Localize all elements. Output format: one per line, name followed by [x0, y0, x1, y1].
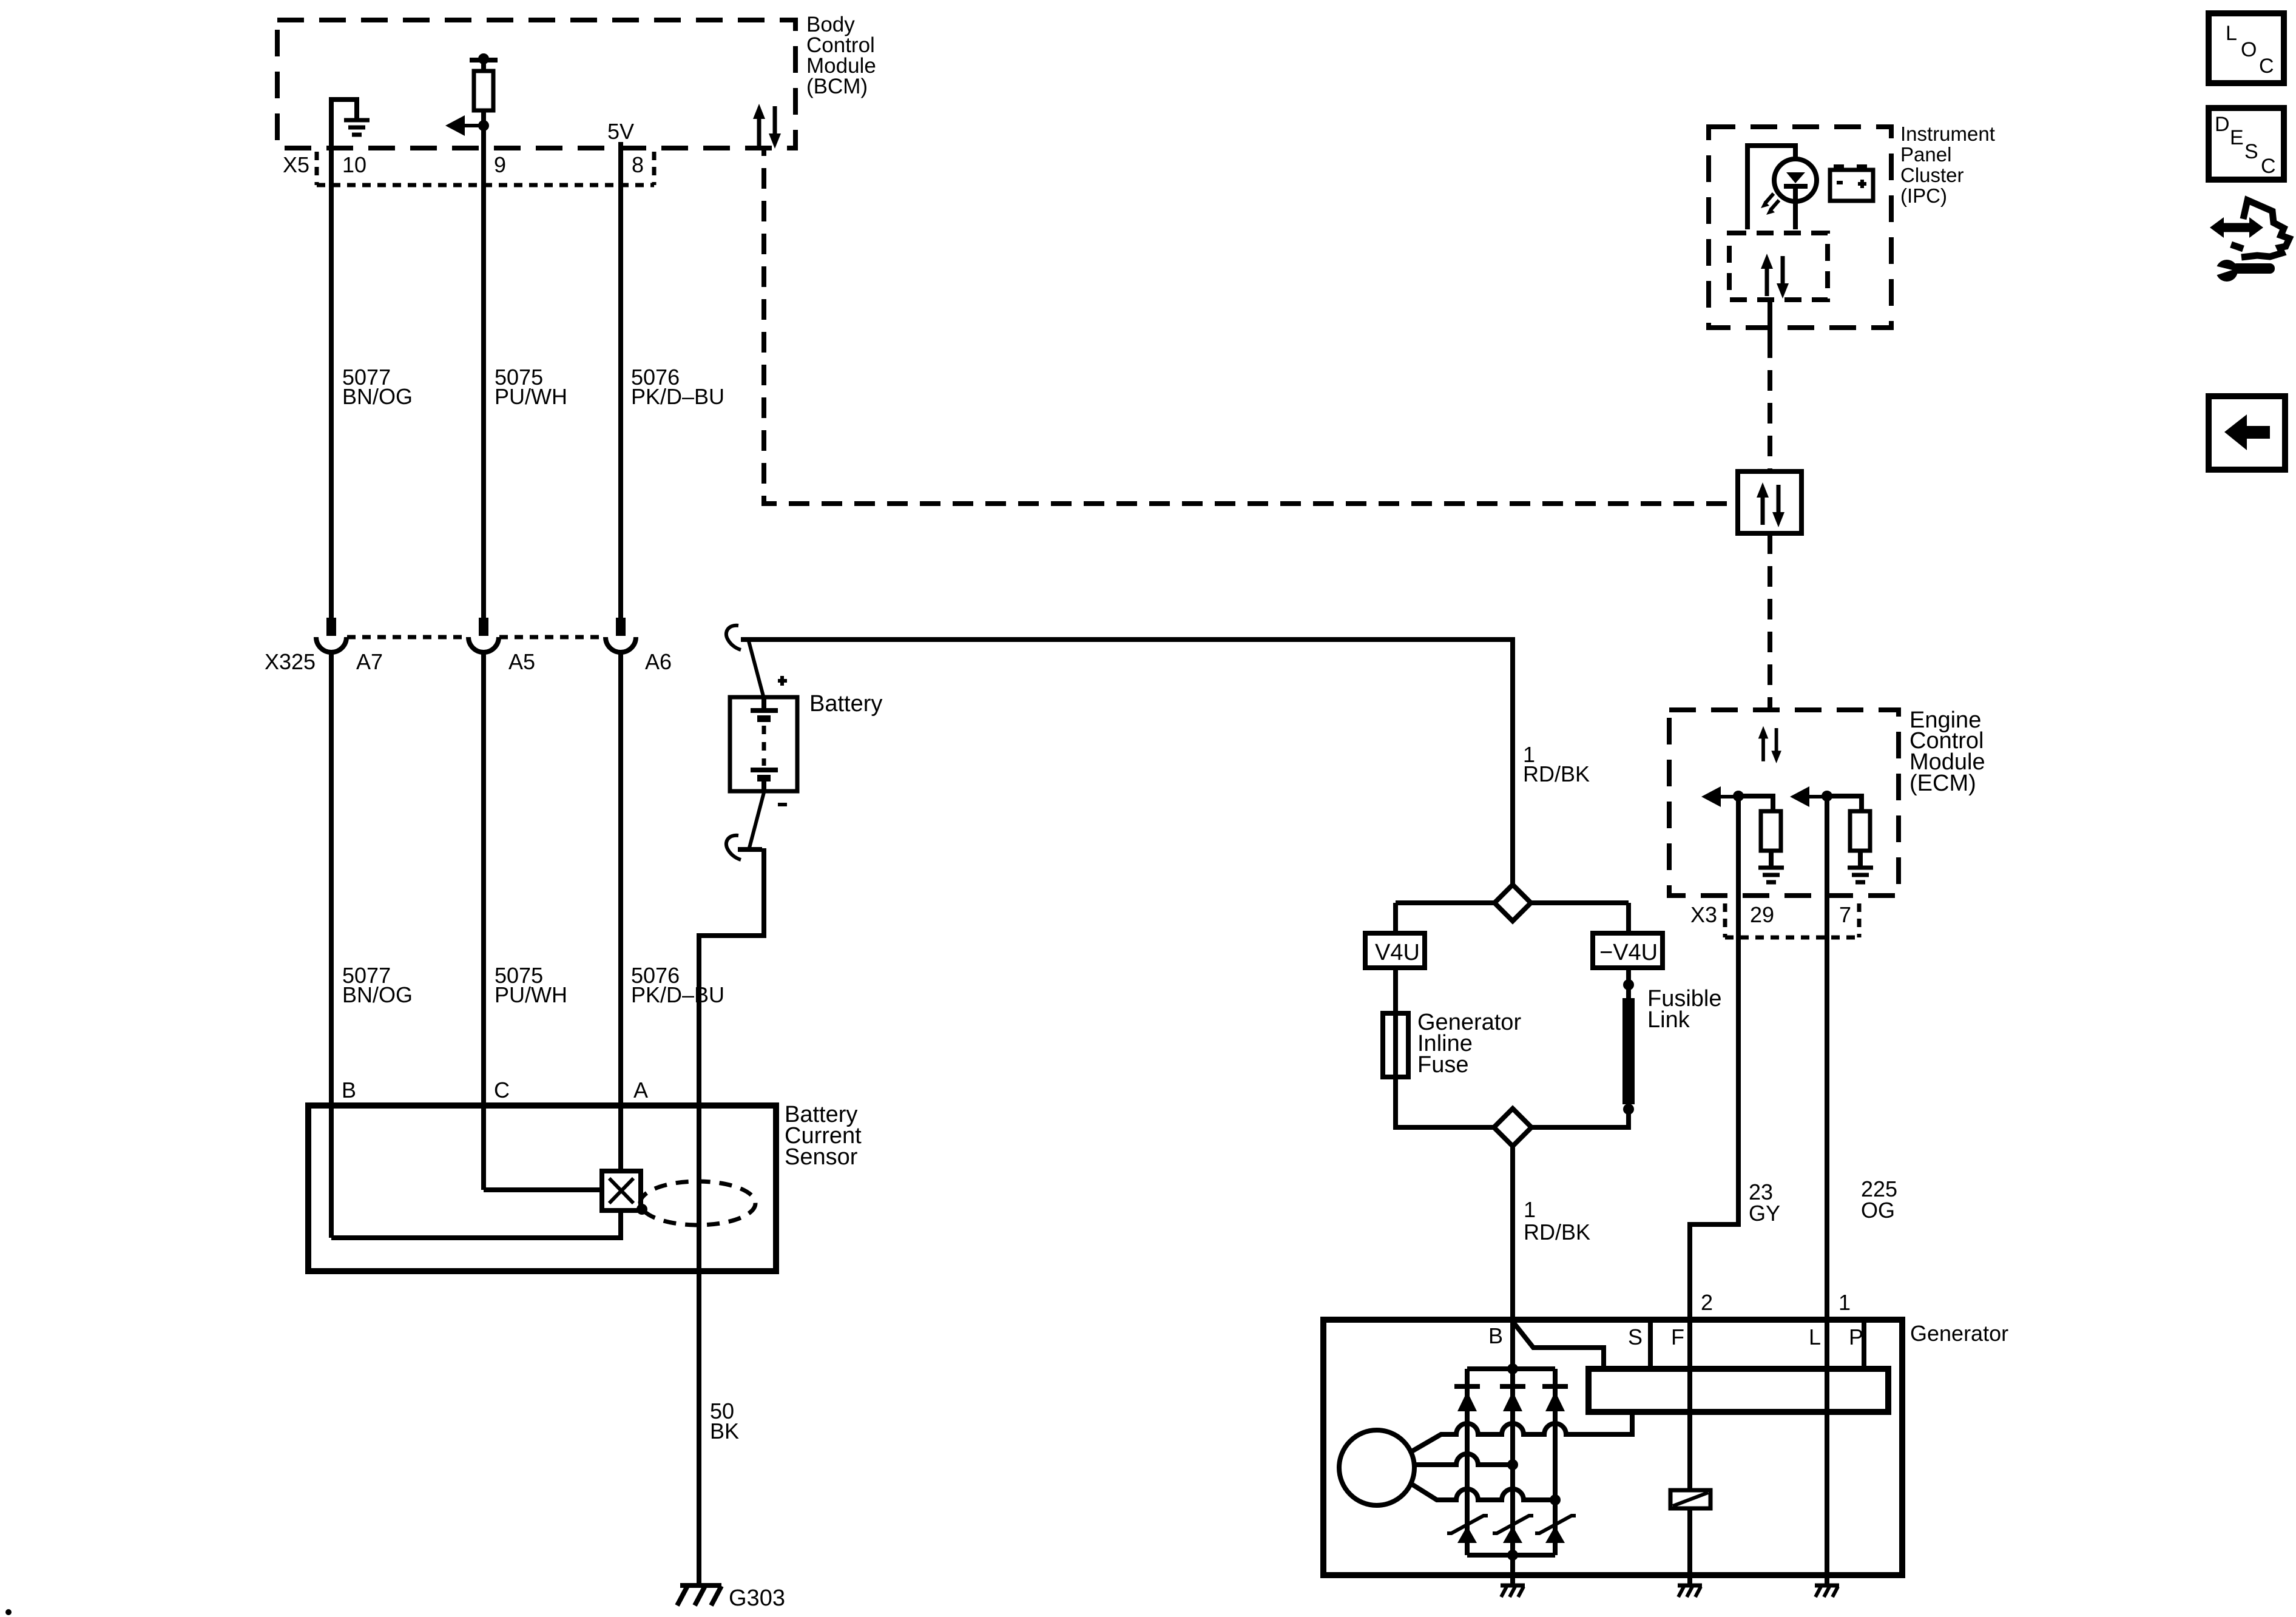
- svg-text:X325: X325: [265, 649, 316, 674]
- svg-text:29: 29: [1750, 902, 1774, 927]
- svg-text:PK/D–BU: PK/D–BU: [631, 384, 724, 409]
- svg-text:BN/OG: BN/OG: [342, 982, 413, 1007]
- svg-text:RD/BK: RD/BK: [1524, 1220, 1590, 1244]
- svg-text:PU/WH: PU/WH: [495, 982, 567, 1007]
- svg-text:PU/WH: PU/WH: [495, 384, 567, 409]
- svg-text:X5: X5: [283, 152, 309, 177]
- svg-text:BN/OG: BN/OG: [342, 384, 413, 409]
- svg-text:1: 1: [1524, 1197, 1536, 1222]
- svg-text:Instrument: Instrument: [1900, 123, 1995, 145]
- svg-text:Fuse: Fuse: [1417, 1052, 1468, 1078]
- svg-text:L: L: [2226, 22, 2237, 45]
- svg-text:5V: 5V: [607, 119, 634, 144]
- svg-text:E: E: [2230, 126, 2244, 149]
- svg-text:Generator: Generator: [1910, 1321, 2008, 1346]
- svg-text:1: 1: [1838, 1290, 1851, 1315]
- svg-text:O: O: [2241, 38, 2257, 61]
- svg-text:BK: BK: [710, 1419, 739, 1443]
- svg-text:(ECM): (ECM): [1909, 771, 1976, 796]
- svg-text:F: F: [1671, 1325, 1684, 1349]
- svg-text:(BCM): (BCM): [806, 75, 868, 98]
- svg-text:G303: G303: [729, 1585, 785, 1611]
- svg-text:7: 7: [1839, 902, 1851, 927]
- svg-text:A6: A6: [645, 649, 672, 674]
- svg-text:GY: GY: [1749, 1201, 1780, 1226]
- svg-text:P: P: [1849, 1325, 1863, 1349]
- svg-text:Battery: Battery: [809, 691, 882, 717]
- svg-text:Panel: Panel: [1900, 143, 1951, 166]
- svg-text:RD/BK: RD/BK: [1523, 761, 1590, 786]
- svg-text:Link: Link: [1647, 1007, 1690, 1033]
- svg-text:OG: OG: [1861, 1198, 1895, 1223]
- svg-text:S: S: [2244, 140, 2258, 163]
- svg-text:A5: A5: [508, 649, 535, 674]
- svg-text:10: 10: [342, 152, 366, 177]
- svg-text:Sensor: Sensor: [785, 1144, 858, 1170]
- svg-text:B: B: [342, 1078, 356, 1102]
- svg-text:B: B: [1488, 1323, 1503, 1348]
- svg-text:8: 8: [632, 152, 644, 177]
- svg-text:PK/D–BU: PK/D–BU: [631, 982, 724, 1007]
- svg-text:A: A: [633, 1078, 648, 1102]
- svg-text:C: C: [494, 1078, 510, 1102]
- svg-text:V4U: V4U: [1375, 940, 1420, 965]
- svg-text:(IPC): (IPC): [1900, 184, 1947, 207]
- svg-text:D: D: [2215, 113, 2230, 136]
- svg-text:S: S: [1628, 1325, 1643, 1349]
- svg-text:2: 2: [1701, 1290, 1713, 1315]
- svg-text:A7: A7: [356, 649, 383, 674]
- svg-text:C: C: [2261, 155, 2276, 178]
- svg-text:L: L: [1809, 1325, 1821, 1349]
- svg-text:−V4U: −V4U: [1599, 940, 1658, 965]
- svg-text:C: C: [2259, 55, 2274, 78]
- svg-text:9: 9: [494, 152, 506, 177]
- svg-text:X3: X3: [1690, 902, 1717, 927]
- svg-text:Cluster: Cluster: [1900, 164, 1964, 186]
